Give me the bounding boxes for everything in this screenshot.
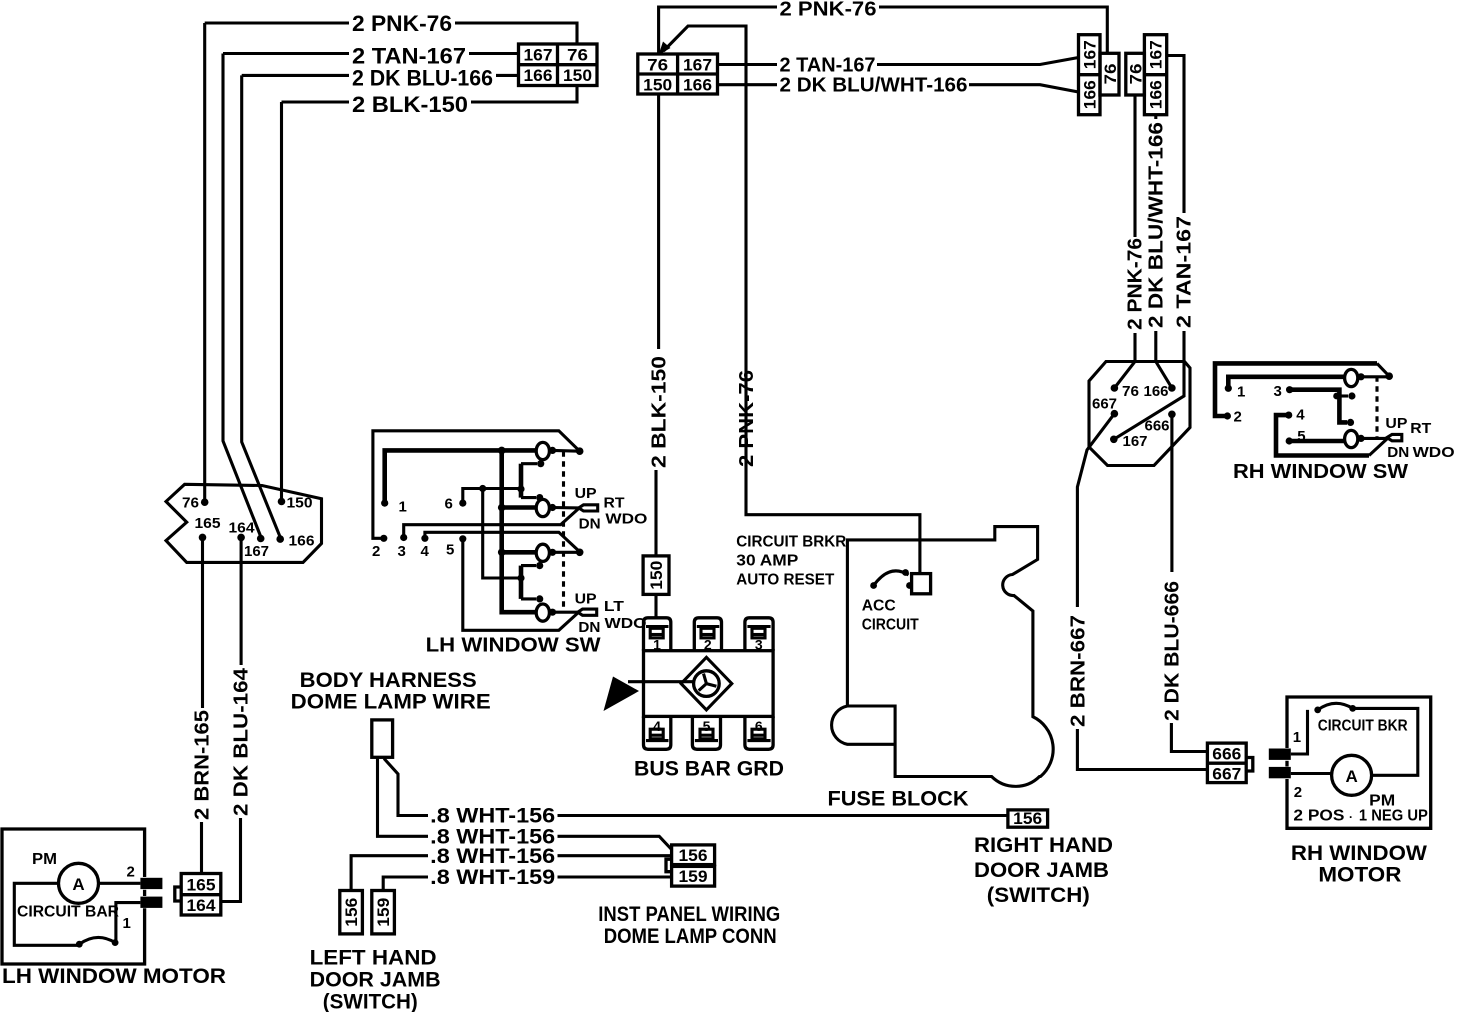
svg-text:2: 2 [1234,409,1242,426]
svg-text:76: 76 [1122,384,1139,400]
wire pin5 DN to LT spade [463,539,578,631]
svg-text:156: 156 [342,898,361,927]
wire 2 DK BLU-164 down from pin 164 [240,537,243,665]
svg-text:UP: UP [575,485,597,502]
breaker arc [1318,703,1353,710]
wire 2 DK BLU/WHT-166 to connector C3 [969,85,1079,92]
lower pivot bar [519,566,524,599]
contact oval UP (RT) [536,442,549,459]
wire pin3 to pivot bar [1290,390,1347,423]
svg-text:PM: PM [32,851,57,868]
svg-text:2: 2 [704,637,712,653]
svg-text:4: 4 [653,718,661,734]
svg-text:2 DK BLU-166: 2 DK BLU-166 [352,66,493,91]
svg-text:1: 1 [399,499,407,516]
fuse tab 5 [692,716,720,749]
connector 666/667 [1207,743,1252,783]
svg-text:2 PNK-76: 2 PNK-76 [1125,238,1147,330]
upper pivot bar [519,464,524,498]
svg-text:3: 3 [1274,383,1282,400]
bus bar ground [604,618,785,781]
wire 2 DK BLU-666 down from octagon [1170,414,1173,572]
wire row2 to inst panel 156 [558,836,672,849]
pin 1 [1225,385,1232,392]
RH window switch [1215,363,1455,483]
svg-text:(SWITCH): (SWITCH) [323,991,418,1012]
svg-text:167: 167 [1123,434,1148,450]
svg-text:164: 164 [229,521,255,537]
fuse tab 4 [644,716,671,749]
svg-text:2 DK BLU/WHT-166: 2 DK BLU/WHT-166 [1146,122,1168,328]
wire harness to row1 [384,759,428,816]
svg-text:RH WINDOW SW: RH WINDOW SW [1233,461,1408,483]
wire row3 to inst panel 156 [558,854,672,857]
fuse tab 3 [745,618,773,651]
octagon pin 164 [237,534,245,542]
svg-text:2 BLK-150: 2 BLK-150 [352,92,468,117]
svg-text:3: 3 [755,637,763,653]
svg-text:2 DK BLU-666: 2 DK BLU-666 [1162,581,1184,721]
fuse block outline [847,527,1053,787]
svg-text:666: 666 [1145,419,1170,435]
fuse tab 2 [694,618,721,651]
wire 2 DK BLU/WHT-166 center [718,83,778,86]
svg-text:BUS BAR GRD: BUS BAR GRD [634,758,784,781]
wire pad2 to armature [1291,772,1332,775]
wire DK BLU-166 vertical+diagonal to LH octagon pin 166 [242,75,281,537]
wire top rail pin2 loop [1215,363,1377,416]
svg-text:30 AMP: 30 AMP [736,553,798,570]
wire 2 TAN-167 left horizontal [223,52,349,55]
svg-text:.8 WHT-156: .8 WHT-156 [430,845,555,868]
long vertical feed [502,450,537,612]
wire PNK-76 branch diagonal to fuse block feed [664,26,920,572]
svg-text:166: 166 [1144,384,1169,400]
fuse tab 1 [644,618,671,651]
svg-text:2: 2 [1294,784,1302,801]
svg-text:667: 667 [1212,765,1241,784]
svg-text:166: 166 [524,66,553,85]
wire arc to pad 1 [116,903,140,943]
pin 2 [1224,412,1231,419]
svg-text:UP: UP [575,591,597,608]
arrowhead on branch at C2 [659,42,671,56]
svg-text:150: 150 [287,496,313,512]
svg-text:BODY HARNESS: BODY HARNESS [300,669,477,692]
LH window switch [372,431,648,657]
wire 2 DK BLU-166 left horizontal [242,74,349,77]
lower pivot feed from pin6 line [483,489,521,579]
octagon pin 167 [257,535,265,543]
svg-text:1 NEG UP: 1 NEG UP [1359,808,1428,825]
wire 2 BLK-150 to C1 cell 150 [471,87,577,102]
RH door octagon connector [1089,362,1190,466]
wire 2 BLK-150 left horizontal [282,100,350,103]
wire circle to pad 2 [99,882,141,885]
svg-text:3: 3 [398,543,406,560]
svg-text:DOME LAMP CONN: DOME LAMP CONN [604,925,777,948]
motor armature circle A [1332,755,1372,795]
svg-text:2 TAN-167: 2 TAN-167 [780,55,876,77]
svg-text:DN: DN [579,515,601,532]
motor armature circle A [59,863,99,903]
octagon pin 167 [1110,436,1118,444]
wire 2 PNK-76 left horizontal [205,21,349,24]
LT WDO output line [536,604,549,621]
dashed rocker link [1375,376,1378,437]
svg-text:CIRCUIT: CIRCUIT [862,617,919,634]
svg-text:DOME LAMP WIRE: DOME LAMP WIRE [291,691,491,714]
svg-text:2 BRN-165: 2 BRN-165 [192,710,214,820]
wire LH jamb 156 up to row3 [351,856,428,890]
contact oval DN (RT) [1345,430,1358,447]
svg-text:DN: DN [1387,444,1409,461]
octagon pin 667 [1111,410,1119,418]
connector C4 body side (76 + 167/166) [1126,35,1167,115]
svg-text:WDO: WDO [1413,444,1455,461]
wire 2 TAN-167 center [718,63,778,66]
octagon pin 150 [278,498,286,506]
svg-text:ACC: ACC [862,598,896,615]
svg-text:667: 667 [1092,397,1117,413]
svg-text:4: 4 [421,543,430,560]
svg-text:166: 166 [1147,80,1166,109]
pin 5 [459,535,466,542]
connector C3 door side (167/166 + 76) [1079,35,1121,115]
svg-text:159: 159 [679,867,708,886]
wire 150 box to bus bar tab 1 [654,594,657,616]
pin 4 [421,535,428,542]
svg-text:(SWITCH): (SWITCH) [987,884,1090,907]
wire LH jamb 159 up to row4 [383,877,428,890]
fuse block left tab [832,706,896,744]
svg-text:LH WINDOW SW: LH WINDOW SW [426,635,601,657]
svg-text:RT: RT [1410,420,1431,437]
svg-text:2 POS: 2 POS [1293,808,1344,825]
svg-text:167: 167 [524,46,553,65]
svg-text:167: 167 [1147,40,1166,69]
wire 2 BLK-150 to 150 box [654,470,657,555]
wire outer rail pin2 loop [373,431,580,539]
svg-text:166: 166 [289,534,315,550]
body harness connector rectangle [372,720,393,757]
svg-text:4: 4 [1296,406,1305,423]
wire breaker to armature [1353,708,1418,775]
svg-text:INST PANEL WIRING: INST PANEL WIRING [598,903,780,926]
pin 3 [400,534,407,541]
ground feed thick wire [628,680,695,683]
ground arrowhead [604,677,640,712]
svg-text:2 DK BLU/WHT-166: 2 DK BLU/WHT-166 [780,75,968,97]
wire 2 PNK-76 down from C4 [1133,95,1136,237]
svg-text:166: 166 [683,76,712,95]
ground wheel symbol [681,657,732,710]
svg-text:166: 166 [1081,80,1100,109]
wire pin4 to LT rail common [425,532,580,552]
svg-text:1: 1 [1237,384,1245,401]
wire 2 BLK-150 down from C2 [657,94,660,349]
svg-text:CIRCUIT BRKR: CIRCUIT BRKR [736,534,846,551]
motor connector 165/164 [175,874,221,916]
octagon pin 166 [276,535,284,543]
motor box [2,829,145,964]
svg-text:.8 WHT-156: .8 WHT-156 [430,805,555,828]
wire 2 DK BLU-666 to connector 666 [1171,723,1207,752]
svg-text:FUSE BLOCK: FUSE BLOCK [828,788,969,811]
LT rail [498,549,506,557]
svg-text:164: 164 [187,896,217,915]
svg-text:DOOR JAMB: DOOR JAMB [974,859,1109,882]
wire 2 DK BLU-166 to C1 cell 166 [496,74,517,77]
pin 2 [380,535,387,542]
wire 2 PNK-76 into octagon to pin 76 [1114,333,1135,388]
svg-text:MOTOR: MOTOR [1318,864,1401,887]
svg-text:1: 1 [1293,729,1301,746]
svg-text:.: . [1349,807,1352,821]
wire circuit bar loop [14,883,80,945]
svg-text:2 BRN-667: 2 BRN-667 [1068,615,1090,727]
wire pin5 to contact oval DN [1289,439,1344,444]
octagon pin 166 [1168,384,1176,392]
pin 4 [1285,412,1292,419]
contact oval UP (RT) [1345,369,1358,386]
wire 2 TAN-167 into octagon to pin 167 [1114,331,1184,439]
terminal pad 2 [1269,767,1291,778]
svg-text:RT: RT [604,495,625,512]
inst panel connector 159 [666,859,715,886]
spade terminal LT WDO [578,609,597,615]
svg-text:CIRCUIT BKR: CIRCUIT BKR [1318,718,1408,735]
svg-text:A: A [72,875,84,894]
svg-text:WDO: WDO [605,615,647,632]
svg-text:2 PNK-76: 2 PNK-76 [352,11,452,36]
RT WDO output line [498,504,506,512]
wire TAN-167 vertical+diagonal to LH octagon pin 167 [223,54,261,537]
pin 6 [459,500,466,507]
terminal pad 1 [1269,749,1291,760]
ACC breaker arc [874,571,909,586]
svg-text:156: 156 [679,846,708,865]
pin 5 [1286,437,1293,444]
svg-text:76: 76 [567,46,588,65]
wire 2 TAN-167 from C4 right [1167,56,1184,214]
svg-text:LH WINDOW MOTOR: LH WINDOW MOTOR [2,965,226,988]
junction dot rail/long vertical [498,447,506,455]
spade terminal RT WDO [1387,434,1402,440]
wire 2 PNK-76 to connector C1 [455,23,577,43]
svg-text:165: 165 [187,876,216,895]
inline connector box 150 [643,556,669,595]
wire 2 DK BLU/WHT-166 into octagon to pin 166 [1156,331,1172,388]
svg-text:UP: UP [1385,415,1407,432]
wire BLK-150 vertical to LH octagon pin 150 [280,102,283,500]
svg-text:167: 167 [244,544,269,560]
svg-text:150: 150 [643,76,672,95]
svg-text:5: 5 [703,718,711,734]
pin 3 [1286,386,1293,393]
wire PNK-76 vertical to LH octagon pin 76 [203,23,206,500]
breaker arc [79,937,115,944]
wire 2 PNK-76 to connector C3 [879,7,1107,52]
pin 1 [381,500,388,507]
wire pad1 to breaker [1291,710,1308,754]
svg-text:2: 2 [127,864,135,881]
wire pin6 to pivot [463,489,521,504]
svg-text:CIRCUIT BAR: CIRCUIT BAR [17,904,119,921]
wire 2 PNK-76 top center run [659,7,777,54]
svg-text:167: 167 [683,56,712,75]
svg-text:LT: LT [604,598,624,615]
common junction dot upper [576,447,584,455]
LH door octagon connector [166,484,322,562]
wire row1 to 156 box right [558,814,1008,817]
wire 2 TAN-167 to connector C3 [877,58,1079,65]
svg-text:165: 165 [195,516,221,532]
svg-text:AUTO RESET: AUTO RESET [736,572,834,589]
spade terminal RT WDO [579,505,598,511]
svg-text:76: 76 [182,496,199,512]
svg-text:167: 167 [1081,40,1100,69]
svg-text:RH WINDOW: RH WINDOW [1291,842,1427,865]
svg-text:5: 5 [446,542,454,559]
main rect [644,651,774,717]
svg-text:WDO: WDO [605,511,647,528]
svg-text:2 BLK-150: 2 BLK-150 [649,356,671,468]
dashed rocker link upper [562,451,565,612]
svg-text:DOOR JAMB: DOOR JAMB [310,968,441,991]
wire 2 BRN-165 down from pin 165 [201,537,204,708]
svg-text:1: 1 [123,915,131,932]
wire 2 TAN-167 to C1 cell 167 [469,52,517,55]
terminal pad 1 [140,897,162,908]
wire 2 BRN-667 to connector 667 [1077,729,1207,770]
svg-text:RIGHT HAND: RIGHT HAND [974,834,1113,857]
octagon pin 165 [199,534,207,542]
svg-text:1: 1 [653,637,661,653]
svg-text:2 PNK-76: 2 PNK-76 [736,370,758,467]
svg-text:76: 76 [647,56,668,75]
RH window motor [1269,697,1431,887]
svg-text:156: 156 [1013,809,1042,828]
RH door jamb 156 box [1008,809,1048,828]
svg-text:DN: DN [578,619,600,636]
LH window motor [2,829,226,988]
connector C2 (76/167 over 150/166) [638,54,718,95]
LH door jamb connector 156 [340,891,363,934]
wire harness to row2 [378,759,429,837]
wire pin1 rail to contact [1228,377,1344,389]
inst panel connector 156 [672,845,715,865]
terminal pad 2 [140,878,162,889]
svg-text:2: 2 [372,543,380,560]
svg-text:LEFT HAND: LEFT HAND [310,947,437,970]
connector C1 (167/76 over 166/150) [519,44,598,86]
ACC breaker square [912,574,931,594]
svg-text:A: A [1345,767,1357,786]
common junction dot [1385,372,1393,380]
svg-text:6: 6 [755,718,763,734]
wire 2 BRN-165 to motor connector 165 [200,822,203,872]
octagon pin 76 [201,498,209,506]
svg-text:159: 159 [374,898,393,927]
motor box [1287,697,1431,828]
svg-text:.8 WHT-159: .8 WHT-159 [430,866,555,889]
LH door jamb connector 159 [372,891,395,934]
svg-text:2 TAN-167: 2 TAN-167 [1174,216,1196,328]
octagon pin 666 [1168,411,1176,419]
svg-text:76: 76 [1127,64,1146,85]
wire row4 to inst panel 159 [558,875,672,878]
svg-text:150: 150 [647,561,666,590]
octagon pin 76 [1111,384,1119,392]
fuse tab 6 [745,716,773,749]
svg-text:2 PNK-76: 2 PNK-76 [780,0,877,21]
wire 2 DK BLU/WHT-166 down from C4 [1154,115,1157,119]
svg-text:2 DK BLU-164: 2 DK BLU-164 [231,667,253,816]
wire 2 DK BLU-164 to motor connector 164 [222,818,241,902]
wire 2 BRN-667 diagonal out of octagon [1077,414,1114,607]
svg-text:6: 6 [445,496,453,513]
wire pin3 DN to RT spade [404,509,579,538]
svg-text:150: 150 [563,66,592,85]
wire pin1 thick rail [385,450,537,503]
svg-text:666: 666 [1212,745,1241,764]
svg-text:76: 76 [1101,64,1120,85]
wire pin4 loop to WDO terminal [1276,415,1369,455]
